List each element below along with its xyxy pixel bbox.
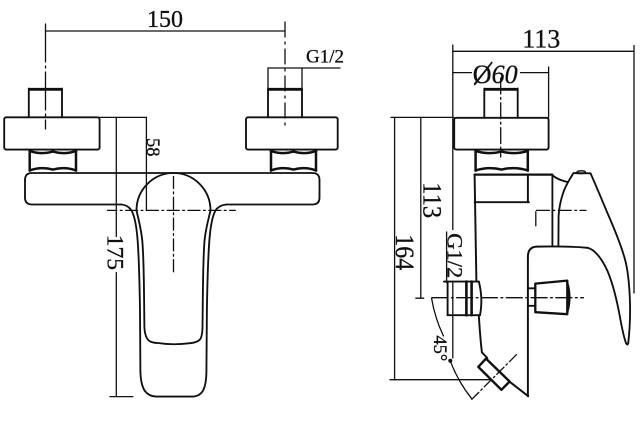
svg-text:G1/2: G1/2 bbox=[443, 233, 468, 278]
svg-text:150: 150 bbox=[147, 7, 183, 33]
svg-text:45°: 45° bbox=[429, 335, 449, 361]
svg-text:58: 58 bbox=[142, 138, 162, 157]
svg-text:G1/2: G1/2 bbox=[306, 47, 344, 68]
svg-text:Ø60: Ø60 bbox=[473, 60, 518, 89]
svg-text:175: 175 bbox=[101, 235, 127, 270]
svg-text:164: 164 bbox=[390, 234, 419, 270]
svg-text:113: 113 bbox=[522, 25, 560, 54]
svg-text:113: 113 bbox=[417, 182, 446, 218]
